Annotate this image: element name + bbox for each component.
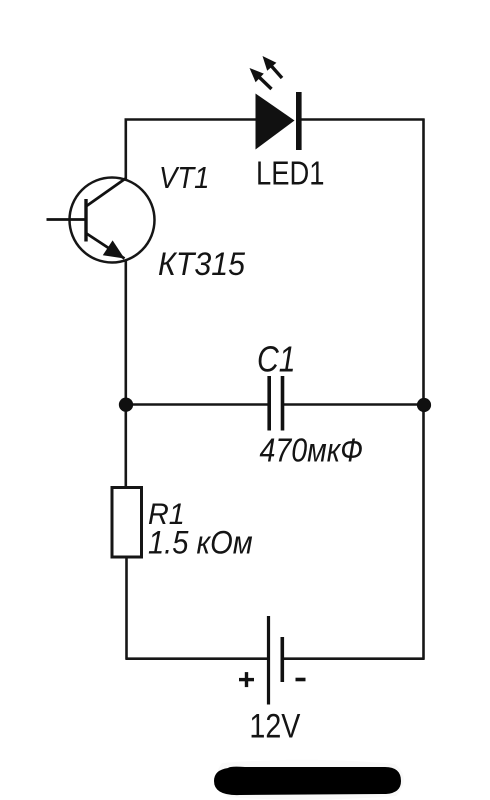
svg-text:КТ315: КТ315: [158, 246, 245, 282]
svg-text:12V: 12V: [249, 708, 300, 746]
svg-text:LED1: LED1: [256, 155, 325, 192]
svg-text:470мкФ: 470мкФ: [260, 432, 364, 469]
svg-text:C1: C1: [257, 339, 296, 380]
svg-text:VT1: VT1: [159, 160, 210, 195]
svg-text:1.5 кОм: 1.5 кОм: [148, 524, 253, 560]
